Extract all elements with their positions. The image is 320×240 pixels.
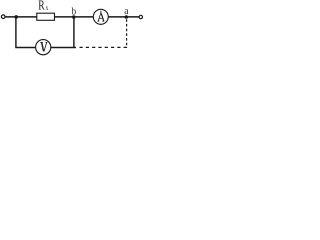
wire ammeter to terminal right — [108, 16, 139, 18]
wire dashed horizontal — [80, 46, 128, 48]
ammeter pointer tick — [99, 11, 102, 14]
label V in voltmeter — [40, 42, 47, 51]
terminal left — [1, 15, 5, 19]
wire b branch vertical — [73, 17, 75, 48]
node a junction dot — [125, 15, 129, 19]
svg-text:b: b — [72, 6, 77, 18]
wire resistor to ammeter — [55, 16, 94, 18]
svg-text:a: a — [124, 6, 129, 18]
node junction dot left — [14, 15, 18, 19]
svg-text:x: x — [46, 6, 49, 13]
wire top-left — [5, 16, 37, 18]
resistor Rx box — [37, 13, 55, 20]
ammeter U1 circle — [93, 9, 108, 24]
node b junction dot — [72, 15, 76, 19]
label A in ammeter — [97, 14, 104, 22]
wire voltmeter to b branch — [51, 47, 76, 49]
wire left branch vertical — [15, 17, 17, 48]
svg-text:R: R — [38, 0, 45, 13]
terminal right — [139, 15, 142, 18]
wire bottom left to voltmeter — [15, 47, 35, 49]
wire dashed vertical — [126, 19, 128, 48]
voltmeter U2 circle — [36, 40, 51, 55]
